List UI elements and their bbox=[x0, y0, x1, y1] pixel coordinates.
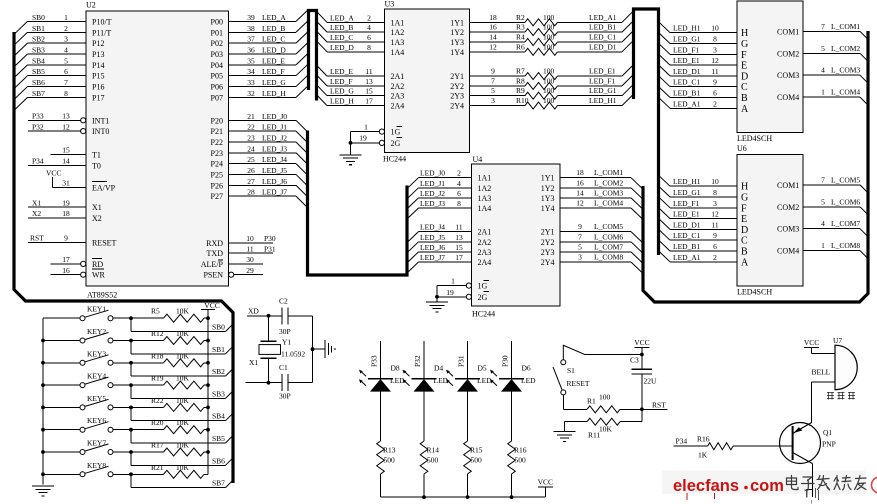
svg-text:P11/T: P11/T bbox=[92, 28, 111, 37]
wire net LED_B1 to U6 pin 6 bbox=[659, 240, 738, 251]
svg-text:L_COM8: L_COM8 bbox=[831, 241, 860, 250]
svg-text:11: 11 bbox=[246, 244, 253, 253]
wire net SB3 from KEY4 to bus bbox=[131, 385, 233, 398]
svg-text:VCC: VCC bbox=[538, 478, 553, 487]
svg-text:elecfans: elecfans bbox=[673, 477, 739, 495]
svg-text:16: 16 bbox=[576, 178, 584, 187]
svg-text:P12: P12 bbox=[92, 39, 104, 48]
svg-text:AT89S52: AT89S52 bbox=[87, 291, 117, 300]
svg-text:100: 100 bbox=[543, 96, 555, 105]
svg-text:RESET: RESET bbox=[92, 238, 117, 247]
svg-text:100: 100 bbox=[543, 23, 555, 32]
svg-text:PNP: PNP bbox=[822, 440, 836, 449]
svg-text:P31: P31 bbox=[457, 355, 466, 367]
svg-text:LED_D: LED_D bbox=[262, 45, 286, 54]
svg-text:WR: WR bbox=[92, 271, 106, 280]
wire net LED_G1 to U6 pin 8 bbox=[659, 186, 738, 197]
svg-text:L_COM1: L_COM1 bbox=[831, 22, 860, 31]
svg-text:PSEN: PSEN bbox=[203, 271, 223, 280]
svg-text:L_COM5: L_COM5 bbox=[831, 175, 860, 184]
svg-text:13: 13 bbox=[62, 112, 70, 121]
svg-text:1: 1 bbox=[821, 88, 825, 97]
svg-text:1Y4: 1Y4 bbox=[541, 204, 555, 213]
svg-text:LED_F1: LED_F1 bbox=[673, 199, 700, 208]
watermark background band bbox=[662, 471, 866, 495]
svg-text:LED_C: LED_C bbox=[262, 35, 285, 44]
svg-text:1Y4: 1Y4 bbox=[450, 48, 464, 57]
svg-text:R20: R20 bbox=[151, 418, 164, 427]
svg-text:LED_E: LED_E bbox=[330, 67, 353, 76]
svg-text:HC244: HC244 bbox=[472, 310, 495, 319]
svg-text:R15: R15 bbox=[470, 446, 483, 455]
wire net LED_D from U2 pin 36 bbox=[229, 42, 309, 54]
resistor R21 10K pullup bbox=[131, 463, 208, 479]
svg-text:P21: P21 bbox=[211, 127, 223, 136]
svg-text:3: 3 bbox=[491, 96, 495, 105]
svg-text:LED_A1: LED_A1 bbox=[673, 99, 701, 108]
svg-text:12: 12 bbox=[576, 199, 584, 208]
svg-text:2Y4: 2Y4 bbox=[450, 102, 464, 111]
svg-text:LED_A: LED_A bbox=[330, 13, 354, 22]
svg-text:2A1: 2A1 bbox=[391, 72, 405, 81]
svg-text:P26: P26 bbox=[211, 181, 223, 190]
svg-text:12: 12 bbox=[62, 122, 70, 131]
wire net L_COM2 from U4 pin 16 bbox=[560, 178, 643, 199]
svg-text:LED_B1: LED_B1 bbox=[673, 242, 700, 251]
svg-text:7: 7 bbox=[821, 22, 825, 31]
svg-text:B: B bbox=[741, 247, 748, 258]
svg-text:C1: C1 bbox=[279, 363, 288, 372]
svg-text:KEY2: KEY2 bbox=[87, 327, 106, 336]
svg-text:2Y2: 2Y2 bbox=[450, 82, 464, 91]
svg-text:A: A bbox=[741, 104, 749, 115]
wire C2 to ground rail bbox=[288, 315, 313, 317]
svg-text:P33: P33 bbox=[370, 355, 379, 367]
LED D6 bbox=[490, 364, 536, 392]
svg-text:LED_D: LED_D bbox=[330, 43, 354, 52]
svg-text:14: 14 bbox=[489, 33, 497, 42]
svg-text:P30: P30 bbox=[501, 355, 510, 367]
svg-text:SB3: SB3 bbox=[32, 45, 45, 54]
wire U2 PSEN pin 29 bbox=[229, 266, 263, 277]
wire net LED_G to U3 pin 15 bbox=[317, 85, 385, 96]
svg-text:P34: P34 bbox=[32, 157, 44, 166]
svg-text:KEY5: KEY5 bbox=[87, 394, 106, 403]
svg-text:D8: D8 bbox=[391, 364, 400, 373]
svg-text:14: 14 bbox=[576, 188, 584, 197]
svg-text:12: 12 bbox=[711, 210, 719, 219]
resistor R10 100 on net LED_H1 from U3 pin 3 bbox=[470, 94, 634, 109]
wire net XD (crystal top) bbox=[247, 307, 282, 318]
wire net LED_E1 to U6 pin 12 bbox=[659, 208, 738, 219]
svg-text:LED4SCH: LED4SCH bbox=[737, 134, 772, 143]
ground for U4 enables bbox=[426, 302, 448, 312]
svg-text:R7: R7 bbox=[516, 67, 525, 76]
wire net LED_F1 to U6 pin 3 bbox=[659, 197, 738, 208]
svg-text:17: 17 bbox=[365, 97, 373, 106]
switch KEY1 bbox=[43, 305, 133, 321]
svg-text:2Y3: 2Y3 bbox=[450, 92, 464, 101]
svg-text:10K: 10K bbox=[599, 425, 613, 434]
svg-text:LED_G: LED_G bbox=[330, 87, 354, 96]
wire net LED_D1 to U5 pin 11 bbox=[659, 65, 738, 76]
svg-text:10K: 10K bbox=[176, 351, 190, 360]
svg-text:3: 3 bbox=[713, 199, 717, 208]
svg-text:37: 37 bbox=[247, 35, 255, 44]
svg-text:XD: XD bbox=[248, 307, 259, 316]
svg-text:9: 9 bbox=[491, 67, 495, 76]
svg-text:LED_J5: LED_J5 bbox=[262, 166, 287, 175]
svg-text:2: 2 bbox=[457, 169, 461, 178]
svg-text:P10/T: P10/T bbox=[92, 17, 112, 26]
svg-text:COM3: COM3 bbox=[777, 71, 799, 80]
wire net LED_J6 to U4 pin 15 bbox=[407, 243, 472, 263]
transistor Q1 PNP bbox=[780, 423, 836, 464]
svg-text:P15: P15 bbox=[92, 72, 104, 81]
wire net L_COM7 from U4 pin 5 bbox=[560, 242, 643, 263]
svg-text:23: 23 bbox=[247, 133, 255, 142]
wire net LED_H1 to U5 pin 10 bbox=[659, 22, 738, 33]
power VCC for LED rail bbox=[538, 478, 553, 488]
svg-text:COM3: COM3 bbox=[777, 225, 799, 234]
svg-text:Q1: Q1 bbox=[823, 428, 832, 437]
svg-text:6: 6 bbox=[367, 33, 371, 42]
svg-text:15: 15 bbox=[62, 146, 70, 155]
svg-text:LED: LED bbox=[390, 376, 405, 385]
op-amp U6 LED4SCH display body bbox=[737, 144, 803, 297]
svg-text:C2: C2 bbox=[279, 297, 288, 306]
wire net LED_A1 to U5 pin 2 bbox=[659, 97, 738, 108]
svg-text:2Y3: 2Y3 bbox=[541, 248, 555, 257]
svg-text:4: 4 bbox=[367, 23, 371, 32]
wire net LED_F from U2 pin 34 bbox=[229, 64, 309, 76]
wire net SB5 to U2 pin 6 bbox=[15, 67, 86, 87]
bus LED_A1-LED_H1 segment bus to displays bbox=[634, 9, 659, 255]
op-amp U3 HC244 buffer body bbox=[383, 0, 470, 164]
svg-text:11: 11 bbox=[365, 67, 372, 76]
svg-text:R9: R9 bbox=[516, 86, 525, 95]
resistor R1 100 bbox=[563, 393, 642, 413]
svg-text:LED_J4: LED_J4 bbox=[420, 223, 445, 232]
resistor R13 500 bbox=[377, 392, 396, 498]
wire net LED_B to U3 pin 4 bbox=[317, 21, 385, 32]
resistor R9 100 on net LED_G1 from U3 pin 5 bbox=[470, 84, 634, 99]
svg-text:LED_A: LED_A bbox=[262, 13, 286, 22]
svg-text:P32: P32 bbox=[413, 355, 422, 367]
svg-text:LED_B: LED_B bbox=[330, 23, 353, 32]
svg-text:3: 3 bbox=[578, 253, 582, 262]
svg-text:10K: 10K bbox=[176, 418, 190, 427]
svg-text:R17: R17 bbox=[151, 441, 164, 450]
svg-text:P23: P23 bbox=[211, 149, 223, 158]
svg-text:9: 9 bbox=[64, 234, 68, 243]
svg-text:ALE/P: ALE/P bbox=[201, 260, 224, 269]
svg-text:P00: P00 bbox=[211, 17, 223, 26]
svg-text:LED_E: LED_E bbox=[262, 56, 285, 65]
svg-text:P01: P01 bbox=[211, 28, 223, 37]
svg-text:R4: R4 bbox=[516, 33, 525, 42]
svg-text:30: 30 bbox=[246, 255, 254, 264]
resistor R7 100 on net LED_E1 from U3 pin 9 bbox=[470, 65, 634, 80]
svg-text:LED_J2: LED_J2 bbox=[420, 189, 445, 198]
svg-text:LED_A1: LED_A1 bbox=[589, 13, 617, 22]
wire net LED_J5 from U2 pin 26 bbox=[229, 166, 308, 186]
svg-text:D: D bbox=[741, 225, 748, 236]
svg-text:KEY4: KEY4 bbox=[87, 372, 106, 381]
svg-text:35: 35 bbox=[247, 56, 255, 65]
svg-text:HC244: HC244 bbox=[383, 155, 406, 164]
svg-text:C3: C3 bbox=[630, 356, 639, 365]
svg-text:X2: X2 bbox=[92, 214, 102, 223]
svg-text:6: 6 bbox=[713, 89, 717, 98]
wire net P33 to U2 INT1 pin 13 bbox=[28, 112, 86, 123]
svg-text:2: 2 bbox=[713, 99, 717, 108]
svg-text:1: 1 bbox=[451, 276, 455, 285]
svg-text:KEY8: KEY8 bbox=[87, 461, 106, 470]
svg-text:14: 14 bbox=[62, 157, 70, 166]
svg-text:SB4: SB4 bbox=[32, 56, 45, 65]
svg-text:L_COM8: L_COM8 bbox=[594, 253, 623, 262]
wire net SB0 from KEY1 to bus bbox=[131, 318, 233, 331]
resistor R16 500 bbox=[508, 392, 527, 498]
svg-text:R16: R16 bbox=[514, 446, 527, 455]
resistor R12 10K pullup bbox=[131, 329, 208, 345]
svg-text:X2: X2 bbox=[32, 209, 41, 218]
bus L_COM1-L_COM8 loop around displays bbox=[643, 31, 868, 302]
svg-text:L_COM3: L_COM3 bbox=[831, 66, 860, 75]
wire net LED_F1 to U5 pin 3 bbox=[659, 43, 738, 54]
svg-text:10K: 10K bbox=[176, 329, 190, 338]
wire net LED_J1 from U2 pin 22 bbox=[229, 123, 308, 143]
svg-text:9: 9 bbox=[713, 78, 717, 87]
svg-text:11: 11 bbox=[711, 220, 718, 229]
svg-text:8: 8 bbox=[457, 199, 461, 208]
svg-text:LED_C: LED_C bbox=[330, 33, 353, 42]
svg-text:C: C bbox=[741, 82, 748, 93]
svg-text:7: 7 bbox=[64, 78, 68, 87]
wire crystal ground rail bbox=[311, 316, 325, 383]
LED D5 bbox=[446, 364, 492, 392]
LED D8 bbox=[359, 364, 405, 392]
svg-text:R12: R12 bbox=[151, 329, 164, 338]
svg-text:500: 500 bbox=[515, 456, 527, 465]
svg-text:G: G bbox=[741, 39, 748, 50]
ground for keys bbox=[32, 486, 54, 496]
svg-text:6: 6 bbox=[64, 67, 68, 76]
svg-text:4: 4 bbox=[821, 219, 825, 228]
wire net SB4 to U2 pin 5 bbox=[15, 56, 86, 76]
svg-text:6: 6 bbox=[713, 242, 717, 251]
svg-text:SB5: SB5 bbox=[32, 67, 45, 76]
svg-text:T0: T0 bbox=[92, 161, 101, 170]
svg-text:L_COM1: L_COM1 bbox=[594, 168, 623, 177]
svg-text:1A2: 1A2 bbox=[478, 184, 492, 193]
svg-text:26: 26 bbox=[247, 166, 255, 175]
svg-text:7: 7 bbox=[821, 175, 825, 184]
wire net SB1 from KEY2 to bus bbox=[131, 341, 233, 354]
wire net LED_B from U2 pin 38 bbox=[229, 21, 309, 33]
svg-text:LED_J0: LED_J0 bbox=[262, 112, 287, 121]
wire net LED_J3 from U2 pin 24 bbox=[229, 144, 308, 164]
svg-text:R8: R8 bbox=[516, 76, 525, 85]
wire net SB2 to U2 pin 3 bbox=[15, 35, 86, 55]
svg-text:1A4: 1A4 bbox=[478, 204, 492, 213]
svg-text:P06: P06 bbox=[211, 83, 223, 92]
svg-text:L_COM2: L_COM2 bbox=[831, 44, 860, 53]
svg-text:4: 4 bbox=[821, 66, 825, 75]
svg-text:SB3: SB3 bbox=[212, 389, 225, 398]
svg-text:COM4: COM4 bbox=[777, 93, 799, 102]
svg-text:LED_J1: LED_J1 bbox=[420, 179, 445, 188]
svg-text:RESET: RESET bbox=[567, 379, 590, 388]
svg-text:INT1: INT1 bbox=[92, 116, 109, 125]
svg-text:LED_D1: LED_D1 bbox=[589, 42, 617, 51]
svg-text:28: 28 bbox=[247, 188, 255, 197]
wire net L_COM2 from U5 pin 5 bbox=[803, 44, 868, 62]
wire net SB2 from KEY3 to bus bbox=[131, 363, 233, 376]
svg-text:5: 5 bbox=[64, 56, 68, 65]
watermark Chinese characters dian-zi-fa-shao-you bbox=[787, 476, 867, 491]
svg-text:5: 5 bbox=[491, 86, 495, 95]
wire net LED_E to U3 pin 11 bbox=[317, 65, 385, 76]
svg-text:SB1: SB1 bbox=[212, 345, 225, 354]
svg-text:P07: P07 bbox=[211, 93, 223, 102]
svg-text:2A4: 2A4 bbox=[478, 258, 492, 267]
switch KEY3 bbox=[43, 349, 133, 365]
svg-text:INT0: INT0 bbox=[92, 127, 109, 136]
svg-text:2: 2 bbox=[64, 24, 68, 33]
svg-text:L_COM7: L_COM7 bbox=[831, 219, 860, 228]
capacitor C3 22U bbox=[630, 347, 657, 409]
wire net SB3 to U2 pin 4 bbox=[15, 45, 86, 65]
svg-text:1Y1: 1Y1 bbox=[541, 174, 555, 183]
resistor R15 500 bbox=[464, 392, 483, 498]
svg-text:33: 33 bbox=[247, 78, 255, 87]
svg-text:R18: R18 bbox=[151, 351, 164, 360]
svg-text:P31: P31 bbox=[264, 244, 276, 253]
svg-text:LED_B: LED_B bbox=[262, 24, 285, 33]
watermark red circle stamp at edge bbox=[872, 477, 877, 493]
svg-text:TXD: TXD bbox=[207, 249, 224, 258]
switch KEY8 bbox=[43, 461, 133, 477]
wire net L_COM5 from U6 pin 7 bbox=[803, 175, 868, 193]
svg-text:27: 27 bbox=[247, 177, 255, 186]
wire net L_COM4 from U4 pin 12 bbox=[560, 199, 643, 220]
wire net LED_H to U3 pin 17 bbox=[317, 95, 385, 106]
resistor R3 100 on net LED_B1 from U3 pin 16 bbox=[470, 21, 634, 36]
value label buzzer Chinese (feng-ming-qi) bbox=[827, 392, 855, 400]
bus SB0-SB7 (left vertical, bottom horizontal, keys vertical) bbox=[14, 32, 233, 483]
wire net SB7 to U2 pin 8 bbox=[15, 89, 86, 109]
svg-text:KEY3: KEY3 bbox=[87, 349, 106, 358]
wire net LED_J3 to U4 pin 8 bbox=[407, 199, 472, 219]
svg-text:10K: 10K bbox=[176, 396, 190, 405]
svg-text:LED_A1: LED_A1 bbox=[673, 253, 701, 262]
svg-text:U4: U4 bbox=[473, 155, 483, 164]
svg-text:RD: RD bbox=[92, 260, 103, 269]
svg-text:P20: P20 bbox=[211, 116, 223, 125]
wire net LED_J2 to U4 pin 6 bbox=[407, 189, 472, 209]
wire net LED_C to U3 pin 6 bbox=[317, 31, 385, 42]
svg-text:D6: D6 bbox=[522, 364, 531, 373]
resistor R14 500 bbox=[420, 392, 439, 498]
wire net RST bbox=[640, 401, 668, 412]
svg-text:500: 500 bbox=[471, 456, 483, 465]
svg-text:1K: 1K bbox=[698, 451, 708, 460]
wire net LED_E1 to U5 pin 12 bbox=[659, 54, 738, 65]
svg-text:VCC: VCC bbox=[46, 169, 61, 178]
svg-text:25: 25 bbox=[247, 155, 255, 164]
wire net L_COM3 from U4 pin 14 bbox=[560, 188, 643, 209]
svg-text:19: 19 bbox=[62, 198, 70, 207]
svg-text:100: 100 bbox=[543, 33, 555, 42]
svg-text:R1: R1 bbox=[587, 397, 596, 406]
capacitor C1 30P bbox=[279, 363, 291, 401]
svg-text:10K: 10K bbox=[176, 463, 190, 472]
svg-text:1G: 1G bbox=[478, 282, 488, 291]
power VCC to U2 EA/VP pin 31 bbox=[46, 169, 86, 188]
svg-text:10K: 10K bbox=[176, 307, 190, 316]
wire net LED_A from U2 pin 39 bbox=[229, 10, 309, 22]
svg-text:LED_G: LED_G bbox=[262, 78, 286, 87]
wire BELL net to Q1 emitter bbox=[811, 382, 813, 423]
svg-text:VCC: VCC bbox=[804, 338, 819, 347]
svg-text:LED: LED bbox=[434, 376, 449, 385]
svg-text:8: 8 bbox=[713, 188, 717, 197]
svg-text:LED_J3: LED_J3 bbox=[420, 199, 445, 208]
svg-text:P14: P14 bbox=[92, 61, 104, 70]
svg-text:2A4: 2A4 bbox=[391, 102, 405, 111]
svg-text:R2: R2 bbox=[516, 13, 525, 22]
svg-text:LED_J7: LED_J7 bbox=[262, 188, 287, 197]
svg-text:7: 7 bbox=[578, 232, 582, 241]
svg-text:LED_G1: LED_G1 bbox=[673, 35, 701, 44]
svg-text:R21: R21 bbox=[151, 463, 164, 472]
switch KEY4 bbox=[43, 372, 133, 388]
svg-text:5: 5 bbox=[821, 197, 825, 206]
svg-text:36: 36 bbox=[247, 45, 255, 54]
svg-text:2A3: 2A3 bbox=[478, 248, 492, 257]
wire net LED_D to U3 pin 8 bbox=[317, 41, 385, 52]
bus LED_A-LED_H between U2 and U3 bbox=[309, 11, 317, 101]
resistor R17 10K pullup bbox=[131, 441, 208, 457]
wire net X1 to U2 pin 19 bbox=[28, 198, 86, 207]
svg-text:LED: LED bbox=[521, 376, 536, 385]
svg-text:R6: R6 bbox=[516, 42, 525, 51]
svg-text:24: 24 bbox=[247, 144, 255, 153]
svg-text:LED_J6: LED_J6 bbox=[420, 243, 445, 252]
svg-text:5: 5 bbox=[821, 44, 825, 53]
svg-text:LED_J0: LED_J0 bbox=[420, 169, 445, 178]
wire net P34 to U2 T0 pin 14 bbox=[28, 157, 86, 166]
svg-text:10: 10 bbox=[711, 24, 719, 33]
svg-text:2: 2 bbox=[713, 253, 717, 262]
svg-text:13: 13 bbox=[365, 77, 373, 86]
svg-text:10K: 10K bbox=[176, 441, 190, 450]
bus LED_J0-LED_J7 between U2 and U4 bbox=[308, 131, 408, 276]
svg-text:1A4: 1A4 bbox=[391, 48, 405, 57]
svg-text:18: 18 bbox=[489, 13, 497, 22]
wire net L_COM3 from U5 pin 4 bbox=[803, 66, 868, 84]
wire net SB7 from KEY8 to bus bbox=[131, 474, 233, 487]
svg-text:LED_J2: LED_J2 bbox=[262, 133, 287, 142]
svg-text:11: 11 bbox=[455, 223, 462, 232]
power VCC for buzzer bbox=[804, 338, 819, 348]
wire net SB6 to U2 pin 7 bbox=[15, 78, 86, 98]
wire net P30 to LED D6 bbox=[501, 341, 512, 379]
svg-text:COM2: COM2 bbox=[777, 203, 799, 212]
resistor R4 100 on net LED_C1 from U3 pin 14 bbox=[470, 31, 634, 46]
